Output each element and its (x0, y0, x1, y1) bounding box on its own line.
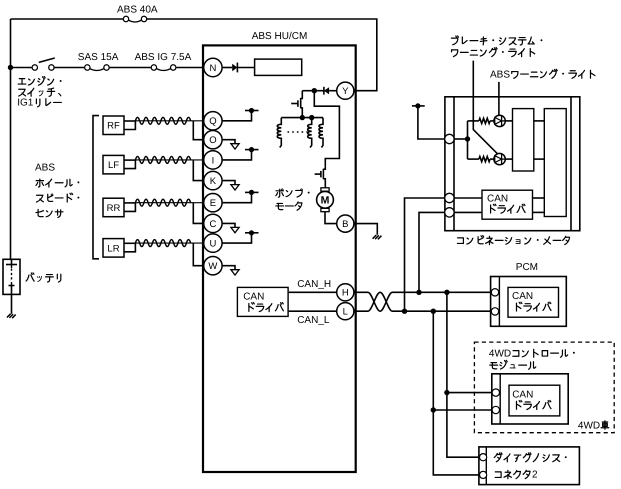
svg-text:U: U (209, 239, 216, 250)
svg-text:N: N (209, 63, 216, 74)
svg-text:I: I (212, 155, 215, 166)
svg-text:M: M (321, 195, 330, 207)
svg-text:D: D (504, 348, 511, 359)
svg-text:LF: LF (108, 160, 119, 171)
svg-text:L: L (343, 307, 348, 318)
svg-text:C: C (209, 219, 216, 230)
svg-text:SAS 15A: SAS 15A (78, 52, 119, 63)
svg-text:PCM: PCM (516, 262, 538, 273)
svg-text:1: 1 (28, 98, 34, 109)
svg-text:ABS HU/CM: ABS HU/CM (252, 31, 308, 42)
svg-text:H: H (342, 288, 349, 299)
svg-text:RF: RF (107, 121, 120, 132)
svg-text:CAN_L: CAN_L (297, 315, 330, 326)
svg-text:CAN_H: CAN_H (297, 279, 331, 290)
svg-text:K: K (210, 176, 217, 187)
svg-text:CAN: CAN (512, 389, 533, 400)
svg-text:S: S (503, 69, 510, 80)
svg-text:ABS IG 7.5A: ABS IG 7.5A (135, 52, 192, 63)
svg-text:ABS 40A: ABS 40A (117, 5, 158, 16)
svg-text:O: O (209, 135, 216, 146)
svg-text:Y: Y (342, 86, 349, 97)
svg-text:W: W (208, 261, 217, 272)
svg-text:E: E (210, 198, 216, 209)
svg-text:CAN: CAN (512, 291, 533, 302)
svg-text:CAN: CAN (243, 292, 264, 303)
svg-text:RR: RR (107, 203, 121, 214)
svg-text:2: 2 (532, 470, 538, 481)
svg-text:B: B (342, 219, 348, 230)
svg-text:Q: Q (209, 116, 216, 127)
svg-text:S: S (48, 163, 55, 174)
svg-text:CAN: CAN (487, 193, 508, 204)
svg-text:D: D (593, 420, 600, 431)
svg-text:LR: LR (107, 243, 119, 254)
